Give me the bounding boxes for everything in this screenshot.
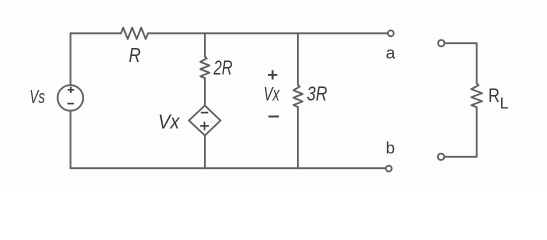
svg-text:a: a [386,43,396,62]
svg-text:Vs: Vs [30,87,46,107]
svg-text:Vx: Vx [158,111,180,133]
svg-text:2R: 2R [213,57,233,80]
svg-text:3R: 3R [307,83,328,106]
svg-text:L: L [500,96,509,113]
svg-text:R: R [129,44,141,67]
svg-text:R: R [488,86,500,107]
svg-text:Vx: Vx [264,83,281,105]
svg-text:b: b [386,140,395,158]
